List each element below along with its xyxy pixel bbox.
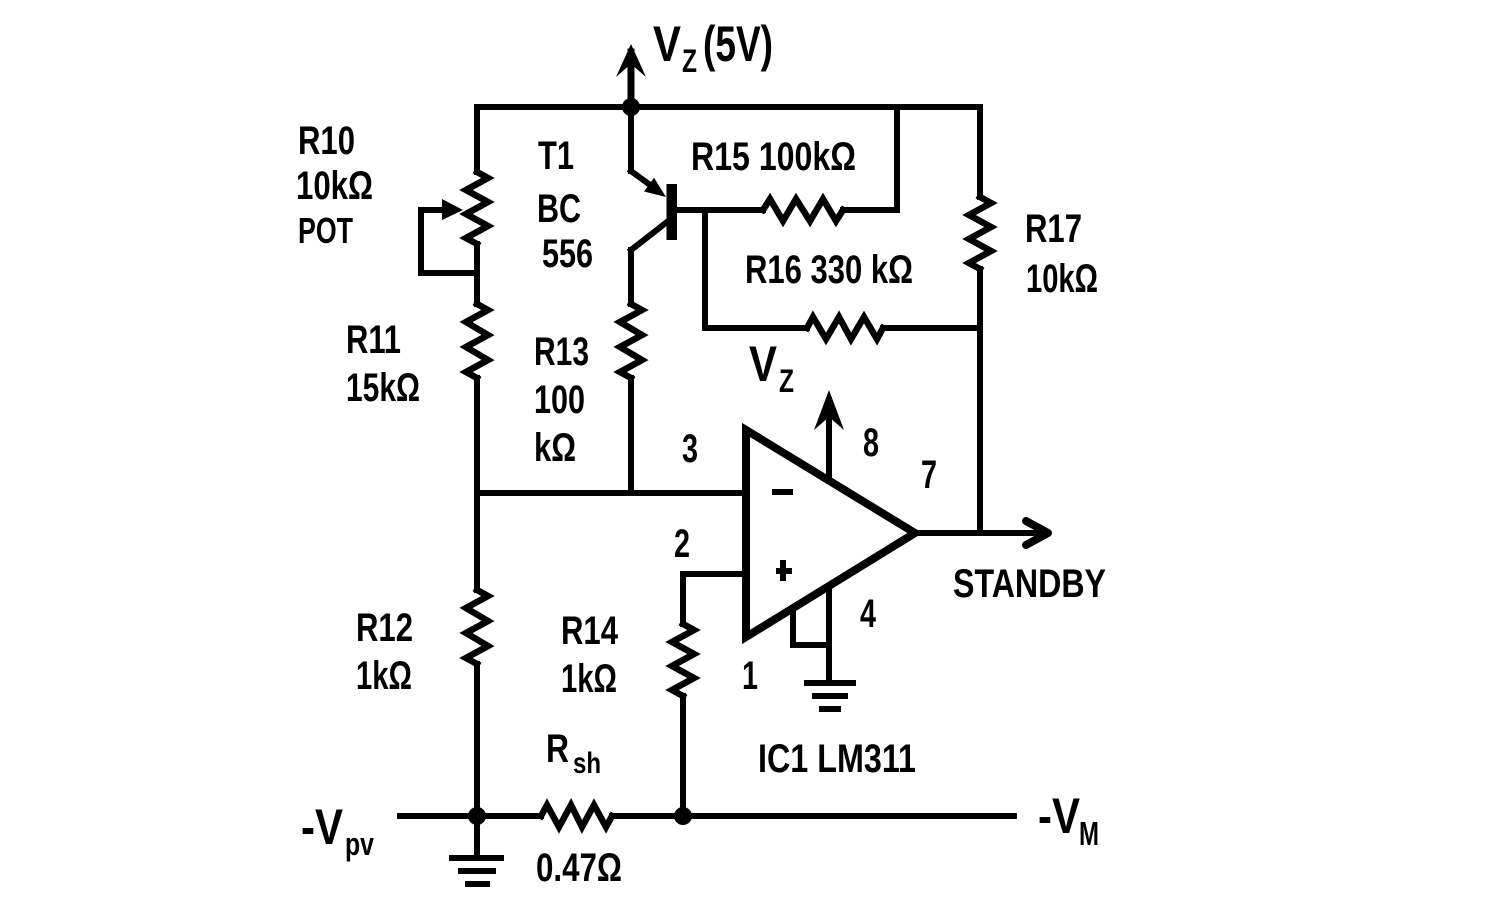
svg-text:pv: pv <box>345 826 374 862</box>
svg-text:V: V <box>749 336 778 392</box>
wire R16 right to rail <box>883 325 980 331</box>
resistor R13 <box>620 304 642 378</box>
svg-text:M: M <box>1079 815 1099 852</box>
pin 4 lead <box>826 586 832 682</box>
svg-text:10kΩ: 10kΩ <box>296 164 373 208</box>
node VZ label at pin 8 <box>749 336 794 399</box>
svg-text:R13: R13 <box>534 330 589 374</box>
svg-text:Z: Z <box>682 43 697 79</box>
svg-text:1kΩ: 1kΩ <box>561 657 617 701</box>
resistor R15 <box>763 199 843 221</box>
svg-text:POT: POT <box>298 210 353 251</box>
wire R17 to output node <box>977 269 983 533</box>
R12 label <box>356 606 413 698</box>
R10 label <box>296 119 373 251</box>
svg-text:(5V): (5V) <box>703 16 773 72</box>
op-amp IC1 triangle <box>746 430 915 637</box>
node VZ (5V) label <box>653 16 773 79</box>
svg-text:1kΩ: 1kΩ <box>356 654 412 698</box>
svg-text:100: 100 <box>534 378 585 422</box>
svg-text:STANDBY: STANDBY <box>953 562 1106 606</box>
T1 label <box>537 134 593 276</box>
resistor R17 <box>969 197 991 269</box>
wire R16 left branch <box>705 210 807 328</box>
pin 1 lead <box>793 608 829 645</box>
svg-text:-V: -V <box>1038 788 1081 844</box>
svg-text:V: V <box>653 16 682 72</box>
wire non-inverting input (pin 2) <box>683 574 746 624</box>
svg-text:0.47Ω: 0.47Ω <box>536 846 622 890</box>
node -VM label <box>1038 788 1099 852</box>
R17 label <box>1025 207 1098 301</box>
pin 8 lead with VZ arrow <box>814 390 844 481</box>
svg-text:2: 2 <box>674 522 690 566</box>
wire R14 to bottom rail <box>680 696 686 816</box>
node -Vpv label <box>301 799 374 862</box>
svg-text:sh: sh <box>573 747 601 780</box>
svg-text:R11: R11 <box>346 318 401 362</box>
svg-text:BC: BC <box>537 187 581 231</box>
junction at R14 bottom <box>674 807 692 825</box>
svg-text:1: 1 <box>742 654 758 698</box>
svg-text:4: 4 <box>860 592 877 636</box>
op-amp minus sign <box>772 489 793 495</box>
svg-text:Z: Z <box>779 363 794 399</box>
svg-text:R16 330 kΩ: R16 330 kΩ <box>745 248 913 292</box>
svg-text:R17: R17 <box>1025 207 1082 251</box>
svg-text:T1: T1 <box>538 134 574 178</box>
R11 label <box>346 318 420 410</box>
svg-text:7: 7 <box>921 453 937 497</box>
junction at -Vpv ground <box>468 807 486 825</box>
svg-text:R15 100kΩ: R15 100kΩ <box>691 135 856 179</box>
node VZ supply arrow <box>616 44 646 107</box>
resistor R11 <box>466 304 488 378</box>
junction at VZ rail <box>622 98 640 116</box>
wire R11 to R12 through node <box>474 378 480 590</box>
ground at -Vpv <box>452 816 501 884</box>
wire R10 to R11 <box>474 244 480 304</box>
wire bottom rail <box>400 813 541 819</box>
svg-text:10kΩ: 10kΩ <box>1026 257 1098 301</box>
potentiometer R10 <box>421 172 488 273</box>
svg-text:3: 3 <box>682 427 698 471</box>
resistor R16 <box>807 317 883 339</box>
wire T1 base lead <box>677 207 763 213</box>
resistor Rsh <box>541 805 612 827</box>
svg-text:kΩ: kΩ <box>534 426 576 470</box>
resistor R12 <box>466 590 488 664</box>
R13 label <box>534 330 589 470</box>
svg-text:556: 556 <box>542 232 593 276</box>
svg-text:R14: R14 <box>561 609 619 653</box>
wire R12 to bottom rail <box>474 664 480 816</box>
wire top rail <box>477 104 980 110</box>
svg-text:15kΩ: 15kΩ <box>346 366 420 410</box>
wire R13 to inverting input node <box>628 378 634 493</box>
resistor R14 <box>672 624 694 696</box>
transistor T1 base bar <box>667 184 678 240</box>
wire R15 right to top rail <box>843 107 897 210</box>
transistor T1 collector <box>631 222 667 304</box>
transistor T1 emitter <box>631 107 671 204</box>
svg-text:R: R <box>546 727 569 771</box>
R14 label <box>561 609 619 701</box>
svg-text:R10: R10 <box>298 119 355 163</box>
wire rail to R10 <box>474 107 480 172</box>
op-amp plus sign <box>776 560 792 581</box>
wire inverting input (pin 3) <box>477 490 746 496</box>
svg-text:IC1 LM311: IC1 LM311 <box>758 737 916 781</box>
output arrowhead <box>1026 521 1048 545</box>
ground at pin 4 <box>807 683 853 709</box>
svg-text:8: 8 <box>863 421 879 465</box>
wire output pin 7 <box>915 530 1046 536</box>
Rsh label <box>546 727 601 780</box>
svg-text:-V: -V <box>301 799 344 855</box>
wire top rail to R17 <box>977 107 983 197</box>
svg-text:R12: R12 <box>356 606 413 650</box>
